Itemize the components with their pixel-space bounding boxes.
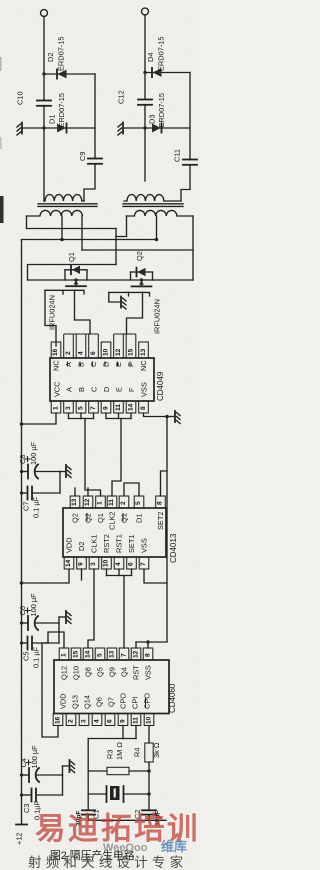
svg-text:Q2: Q2 — [71, 513, 80, 523]
svg-text:9: 9 — [103, 406, 110, 410]
wire — [22, 794, 32, 796]
svg-text:E: E — [114, 362, 123, 367]
U2 bottom pin boxes — [64, 557, 149, 569]
wire — [145, 72, 190, 74]
svg-text:7: 7 — [121, 653, 128, 657]
U2 top pin boxes — [70, 496, 165, 508]
svg-text:CD4060: CD4060 — [168, 683, 177, 713]
svg-text:D1: D1 — [135, 514, 144, 523]
wire — [145, 127, 190, 129]
svg-text:Q14: Q14 — [83, 695, 92, 709]
svg-text:6: 6 — [90, 351, 97, 355]
svg-text:射频和天线设计专家: 射频和天线设计专家 — [28, 854, 187, 870]
U1 top pin boxes — [51, 342, 148, 358]
wire — [181, 165, 190, 201]
svg-text:Q13: Q13 — [71, 695, 80, 709]
svg-text:CLK1: CLK1 — [90, 535, 99, 554]
node VCC tap — [20, 422, 24, 426]
wire T1 right end down — [81, 216, 83, 250]
wire +12 feed line B — [22, 239, 157, 241]
U1 top inside labels — [52, 360, 149, 371]
svg-text:E: E — [115, 387, 124, 392]
Q2 body diode — [131, 271, 153, 273]
svg-text:Q7: Q7 — [107, 697, 116, 707]
svg-text:6: 6 — [107, 719, 114, 723]
node VSS tie — [146, 640, 150, 644]
diode D2 — [46, 36, 67, 78]
svg-text:4: 4 — [78, 351, 85, 355]
wire — [43, 16, 45, 100]
wire RST/VSS tie to rail — [136, 642, 167, 648]
ground (Q2 gate) — [121, 297, 126, 310]
svg-text:100 µF: 100 µF — [29, 441, 38, 465]
wire R4 bottom — [148, 762, 150, 810]
svg-text:D1: D1 — [48, 115, 57, 124]
svg-text:Q12: Q12 — [60, 666, 69, 680]
svg-text:D2: D2 — [46, 53, 55, 62]
wire cross step — [115, 229, 117, 265]
U1 bottom inside labels — [53, 381, 149, 397]
resistor R3 — [88, 742, 149, 775]
U2 top pin numbers 13 12 1 11 2 5 8 — [71, 498, 164, 506]
svg-text:C10: C10 — [16, 91, 25, 105]
svg-text:IRFU024N: IRFU024N — [153, 299, 162, 334]
capacitor C1 — [76, 810, 101, 826]
svg-text:10: 10 — [103, 559, 110, 567]
wire VDD pin14 to rail — [22, 569, 70, 583]
wire pin10 down — [148, 726, 150, 744]
svg-text:9: 9 — [78, 562, 85, 566]
svg-text:VSS: VSS — [144, 665, 153, 680]
scan edge mark left — [0, 196, 4, 223]
svg-text:1M Ω: 1M Ω — [115, 742, 124, 760]
svg-text:SET2: SET2 — [156, 512, 165, 530]
svg-text:C11: C11 — [173, 149, 182, 162]
svg-text:0.1 µF: 0.1 µF — [32, 646, 41, 668]
node D2 junction — [42, 72, 45, 75]
svg-text:Q2: Q2 — [135, 251, 144, 261]
T1 core — [38, 203, 97, 205]
node D3 junction — [143, 126, 146, 129]
svg-text:D2: D2 — [77, 542, 86, 551]
wire Q12 up to C5 node — [48, 632, 64, 648]
svg-text:15: 15 — [128, 348, 135, 356]
wire input bus pins 9-11-14 — [106, 413, 131, 419]
crystal Y1 — [88, 786, 149, 802]
U1 inverter output overbars — [68, 362, 131, 367]
wire right side — [189, 73, 191, 160]
wire — [62, 775, 64, 795]
svg-text:Q4: Q4 — [120, 667, 129, 677]
svg-text:C12: C12 — [117, 90, 126, 104]
resistor R4 — [133, 742, 162, 762]
ground (logic supply) — [167, 411, 180, 424]
svg-text:C5: C5 — [22, 652, 31, 661]
wire line A — [27, 228, 117, 230]
svg-text:8: 8 — [140, 406, 147, 410]
svg-text:F: F — [127, 387, 136, 392]
wire — [44, 127, 95, 129]
svg-text:Q5: Q5 — [96, 667, 105, 677]
svg-text:14: 14 — [65, 559, 72, 567]
svg-text:3: 3 — [81, 719, 88, 723]
op bar pins 12-15 — [114, 334, 136, 358]
svg-text:2: 2 — [65, 351, 72, 355]
wire — [144, 105, 146, 181]
ground (C8/C7) — [60, 465, 71, 478]
svg-text:14: 14 — [85, 650, 92, 658]
diode D4 — [146, 36, 166, 77]
svg-text:CPI: CPI — [131, 697, 140, 709]
node crystal right — [147, 792, 151, 796]
wire osc left drop — [87, 739, 89, 811]
U1 bottom pin numbers 1 3 5 7 9 11 14 8 — [53, 403, 148, 411]
svg-text:VDD: VDD — [59, 693, 68, 709]
wire line C — [82, 249, 193, 251]
svg-text:VSS: VSS — [140, 382, 149, 397]
svg-text:5: 5 — [78, 406, 85, 410]
U3 bottom pin boxes — [53, 714, 154, 726]
wire — [36, 471, 60, 473]
svg-text:+12: +12 — [15, 832, 24, 845]
diode D3 — [148, 93, 167, 133]
svg-text:3: 3 — [65, 406, 72, 410]
capacitor C4 — [19, 745, 39, 782]
wire input bus pins 3-5-7 — [69, 413, 94, 419]
svg-text:5: 5 — [97, 653, 104, 657]
capacitor C12 — [117, 90, 153, 104]
svg-text:A: A — [65, 387, 74, 392]
svg-text:C6: C6 — [18, 606, 27, 615]
svg-text:D: D — [102, 387, 111, 392]
capacitor C10 — [16, 91, 52, 105]
wire Q1 gate to pin16 — [45, 290, 56, 346]
wire D2 stub — [81, 569, 83, 580]
svg-text:C9: C9 — [78, 152, 87, 161]
wire T1 center tap — [61, 216, 63, 240]
Q1 channel — [66, 285, 72, 287]
svg-text:SET1: SET1 — [127, 535, 136, 553]
wire — [43, 106, 45, 201]
svg-text:100 µF: 100 µF — [30, 745, 39, 769]
node D1 junction — [42, 126, 45, 129]
wire right side — [94, 74, 96, 159]
capacitor C2 — [133, 810, 162, 826]
svg-text:ERD07-15: ERD07-15 — [57, 36, 66, 71]
svg-text:3: 3 — [90, 562, 97, 566]
svg-text:D4: D4 — [146, 53, 155, 62]
wire Q1 gate — [45, 289, 63, 291]
wire VCC pin1 to +12 rail — [22, 413, 57, 424]
svg-text:11: 11 — [108, 499, 115, 506]
Q2 gate plate — [129, 292, 150, 296]
svg-text:ERD07-15: ERD07-15 — [157, 93, 166, 128]
U3 top inside labels — [60, 665, 153, 680]
U2 top inside labels — [71, 512, 166, 531]
U3 top pin boxes — [59, 648, 153, 660]
T2 secondary winding — [124, 195, 181, 201]
svg-text:8: 8 — [145, 653, 152, 657]
svg-text:2: 2 — [68, 719, 75, 723]
wire RST bus down to 4060 pin7 — [123, 576, 125, 649]
svg-text:12: 12 — [133, 650, 140, 658]
svg-text:1: 1 — [53, 406, 60, 410]
svg-text:Q9: Q9 — [108, 667, 117, 677]
wire RST bus 10-4-6 — [107, 569, 132, 576]
svg-text:C3: C3 — [22, 804, 31, 813]
svg-text:2: 2 — [120, 501, 127, 505]
wire VDD pin16 from C5 node — [42, 643, 58, 737]
wire Q1 drain link — [28, 265, 117, 281]
Q2 substrate arrow — [140, 278, 143, 281]
wire Q2 gate — [109, 291, 129, 293]
capacitor C11 — [173, 149, 198, 165]
wire — [44, 73, 95, 75]
node VSS rail — [165, 415, 169, 419]
U2 body CD4013 — [63, 508, 166, 557]
svg-text:F: F — [127, 362, 136, 367]
diode D1 — [48, 93, 67, 133]
Q2 channel — [132, 285, 138, 287]
wire C1 bottom — [87, 815, 89, 821]
svg-text:3k Ω: 3k Ω — [152, 742, 161, 758]
svg-text:Q8: Q8 — [84, 667, 93, 677]
svg-text:C: C — [90, 386, 99, 392]
svg-text:CLK2: CLK2 — [108, 512, 117, 531]
node VDD tap — [20, 581, 24, 585]
svg-text:1: 1 — [97, 501, 104, 505]
svg-text:Q10: Q10 — [72, 666, 81, 680]
svg-text:CPO: CPO — [119, 693, 128, 709]
wire — [144, 15, 146, 99]
svg-text:D3: D3 — [148, 115, 157, 124]
wire +12 rail — [21, 240, 23, 825]
wire T2 right end down — [192, 216, 194, 280]
ground (C4/C3) — [63, 760, 75, 775]
terminal node (left output) — [41, 10, 48, 17]
svg-text:15: 15 — [73, 650, 80, 658]
wire pin12 stub — [87, 488, 89, 496]
wire — [22, 492, 28, 494]
svg-text:Q6: Q6 — [95, 697, 104, 707]
svg-text:易迪拓培训: 易迪拓培训 — [35, 812, 200, 846]
svg-text:B: B — [77, 387, 86, 392]
T1 secondary winding — [44, 195, 84, 202]
wire pin11 down — [135, 726, 137, 739]
wire osc ground line — [88, 819, 166, 821]
svg-text:Q1: Q1 — [120, 513, 129, 523]
svg-text:1: 1 — [61, 653, 68, 657]
wire Q2 gate down — [109, 292, 120, 302]
wire — [32, 492, 60, 494]
svg-text:14: 14 — [128, 403, 135, 411]
U3 body CD4060 — [54, 660, 169, 714]
svg-text:R4: R4 — [133, 748, 142, 757]
Q1 body diode — [65, 269, 87, 271]
capacitor C8 — [18, 441, 38, 478]
svg-text:ERD07-15: ERD07-15 — [157, 36, 166, 71]
wire — [58, 623, 60, 643]
CPObar overbar U3 — [145, 698, 147, 708]
wire pin9 down — [122, 726, 124, 739]
svg-text:VCC: VCC — [53, 381, 62, 397]
svg-text:7: 7 — [140, 562, 147, 566]
svg-text:4: 4 — [94, 719, 101, 723]
wire osc top link — [88, 738, 136, 740]
svg-text:R3: R3 — [106, 750, 115, 759]
U3 bottom inside labels — [59, 693, 152, 709]
wire drain rail — [28, 279, 194, 281]
wire Q1bar-D1 loop — [124, 483, 139, 496]
wire Q1 source — [75, 290, 91, 334]
svg-text:12: 12 — [115, 348, 122, 356]
node T1 center tap — [60, 238, 64, 242]
svg-text:NC: NC — [52, 360, 61, 371]
wire — [37, 774, 63, 776]
wire to T2 left end — [116, 216, 127, 237]
wire — [36, 622, 59, 624]
T2 core — [123, 203, 183, 205]
capacitor C9 — [78, 152, 102, 164]
U1 bottom pin boxes — [51, 401, 148, 413]
wire — [22, 471, 28, 473]
terminal node (right output) — [142, 8, 149, 15]
svg-text:5: 5 — [135, 501, 142, 505]
svg-text:VDD: VDD — [65, 537, 74, 553]
svg-text:A: A — [64, 362, 73, 367]
svg-text:Q1: Q1 — [96, 513, 105, 523]
svg-text:13: 13 — [71, 498, 78, 506]
op bar pins 2-4-6 — [64, 334, 99, 358]
svg-text:Q2: Q2 — [84, 513, 93, 523]
svg-text:B: B — [77, 362, 86, 367]
svg-text:6: 6 — [128, 562, 135, 566]
svg-text:NC: NC — [139, 360, 148, 371]
Q1 substrate arrow — [74, 278, 77, 281]
svg-text:10: 10 — [146, 716, 153, 724]
svg-text:13: 13 — [109, 650, 116, 658]
svg-text:11: 11 — [115, 404, 122, 411]
wire T1 primary left end down — [26, 216, 28, 229]
wire — [32, 642, 59, 644]
wire — [22, 642, 28, 644]
capacitor C6 — [18, 593, 38, 630]
+12 terminal — [15, 825, 28, 846]
svg-text:C4: C4 — [19, 758, 28, 767]
svg-text:CPO: CPO — [143, 693, 152, 709]
svg-text:10: 10 — [103, 348, 110, 356]
svg-text:VSS: VSS — [140, 538, 149, 553]
svg-text:100 µF: 100 µF — [29, 593, 38, 617]
wire — [36, 794, 63, 796]
wire SET2 to ground rail — [161, 471, 168, 496]
svg-text:RST2: RST2 — [102, 534, 111, 553]
svg-text:C: C — [89, 361, 98, 367]
capacitor C7 — [22, 487, 41, 519]
node R3 right — [147, 769, 151, 773]
svg-text:16: 16 — [55, 716, 62, 724]
ground (C6/C5) — [59, 611, 71, 624]
T2 primary winding — [127, 210, 194, 216]
svg-text:16: 16 — [52, 348, 59, 356]
svg-text:C7: C7 — [22, 502, 31, 511]
wire ground rail — [166, 417, 168, 643]
Qbar overbars U2 — [87, 513, 123, 521]
svg-text:C8: C8 — [18, 455, 27, 464]
Q1 gate plate — [63, 290, 84, 294]
node rail taps — [20, 470, 23, 473]
ground (left rectifier) — [17, 123, 44, 136]
svg-text:CD4013: CD4013 — [169, 533, 178, 563]
U2 bottom pin numbers 14 9 3 10 4 6 7 — [65, 559, 147, 567]
U3 bottom pin numbers 16 2 3 4 6 9 11 10 — [55, 716, 153, 724]
svg-text:Q1: Q1 — [67, 252, 76, 262]
U3 top pin numbers 1 15 14 5 13 7 12 8 — [61, 650, 152, 658]
wire C2 bottom — [148, 815, 150, 821]
node D4 junction — [143, 71, 146, 74]
wire pin13 stub — [74, 488, 76, 496]
svg-text:8: 8 — [157, 501, 164, 505]
wire 4049 bus to CLK2 — [112, 419, 121, 497]
U1 top pin numbers 16 2 4 6 10 12 15 13 — [52, 348, 147, 356]
wire — [59, 472, 61, 494]
wire — [22, 774, 29, 776]
svg-text:RST: RST — [132, 665, 141, 680]
U1 body CD4049 — [50, 358, 154, 401]
wire — [84, 164, 95, 201]
svg-text:IRFU024N: IRFU024N — [48, 295, 57, 330]
wire VSS pin7 to rail — [144, 569, 167, 583]
svg-text:CD4049: CD4049 — [156, 371, 165, 401]
wire VSS pin8 to ground rail — [144, 413, 168, 417]
U2 bottom inside labels — [65, 534, 149, 553]
svg-text:11: 11 — [133, 717, 140, 724]
svg-text:0.1 µF: 0.1 µF — [32, 496, 41, 518]
svg-text:RST1: RST1 — [115, 534, 124, 553]
svg-text:7: 7 — [90, 406, 97, 410]
svg-text:12: 12 — [84, 498, 91, 506]
svg-text:9: 9 — [120, 719, 127, 723]
wire 4049 bus to Q1 out — [85, 419, 101, 497]
ground (right rectifier) — [118, 123, 145, 136]
svg-text:4: 4 — [115, 562, 122, 566]
svg-text:13: 13 — [140, 348, 147, 356]
wire CLK1 to 4060 Q8 — [88, 569, 94, 648]
T1 primary winding — [27, 210, 83, 216]
capacitor C3 — [22, 789, 42, 821]
node T2 center tap — [155, 238, 159, 242]
capacitor C5 — [22, 637, 41, 669]
wire Q2 source — [127, 292, 143, 334]
svg-text:D: D — [102, 362, 111, 367]
svg-text:ERD07-15: ERD07-15 — [57, 93, 66, 128]
wire T2 center tap — [156, 216, 158, 240]
wire — [22, 622, 28, 624]
